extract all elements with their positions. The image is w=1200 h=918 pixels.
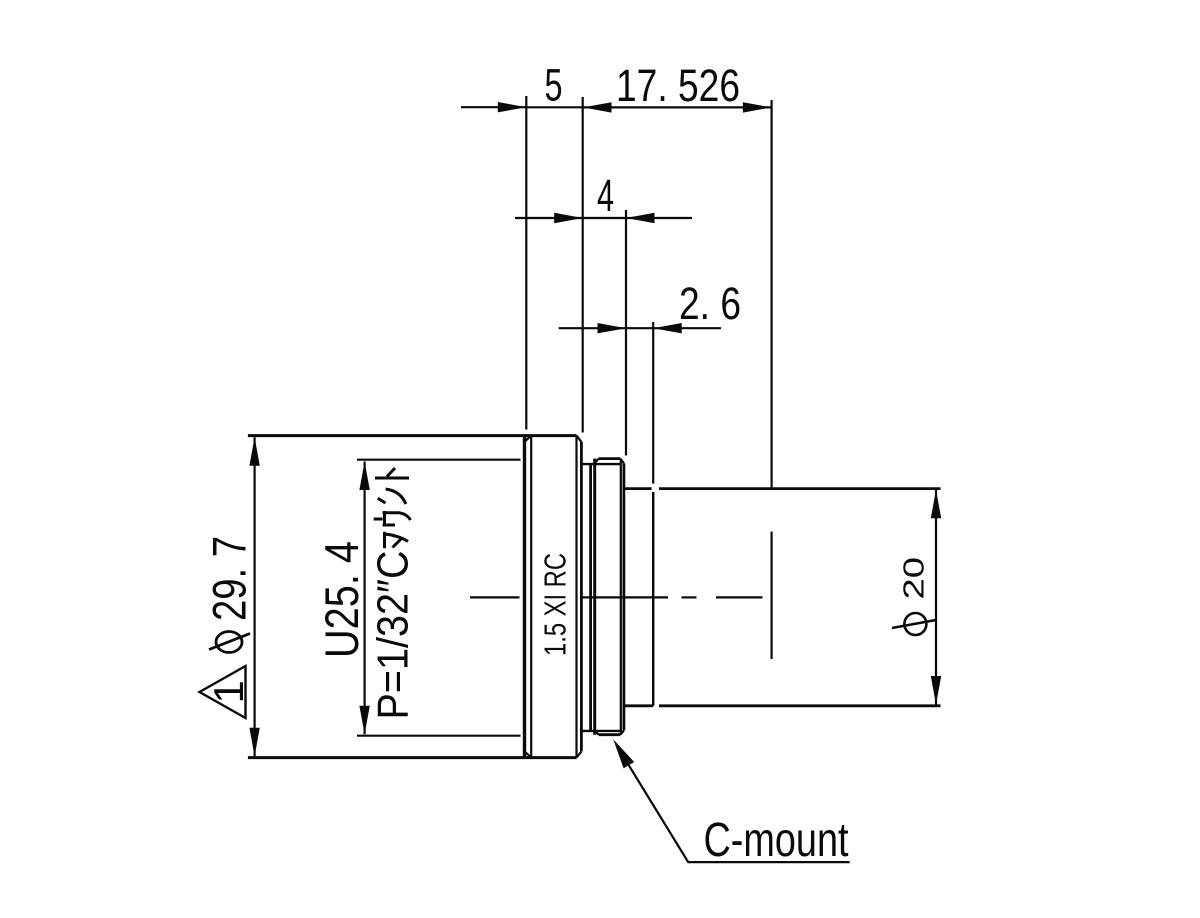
label: diameter symbol for 20 — [892, 613, 936, 635]
wire: C-mount ring bottom edge — [599, 733, 621, 736]
wire: extension line step right — [652, 322, 654, 484]
wire: dimension phi20 line — [935, 490, 937, 705]
label: diameter symbol for 29.7 — [209, 632, 250, 653]
svg-text:2. 6: 2. 6 — [679, 278, 741, 329]
wire: dimension 4 middle line — [583, 217, 626, 219]
wire: dimension 4 left arrow line — [515, 217, 583, 219]
wire: lens body bottom edge — [248, 756, 577, 759]
label: flange marking 1.5 XI RC (rotated) — [538, 553, 573, 656]
svg-text:U25. 4: U25. 4 — [315, 541, 368, 658]
wire: step section top edge — [624, 487, 652, 490]
wire: thread relief groove top edge — [581, 463, 620, 465]
wire: dimension 17.526 line — [583, 106, 771, 108]
wire: dimension 2.6 right arrow line — [653, 327, 721, 329]
wire: C-mount ring top edge — [599, 457, 621, 460]
wire: dimension U25.4 line — [364, 462, 366, 735]
wire: dimension 4 right arrow line — [626, 217, 692, 219]
wire: flange left face — [523, 436, 526, 758]
wire: U25.4 extension bottom — [357, 735, 521, 737]
wire: C-mount ring left face — [593, 459, 596, 735]
wire: rear barrel bottom edge — [659, 704, 941, 707]
katakana MA — [385, 532, 409, 549]
svg-text:17. 526: 17. 526 — [616, 60, 740, 111]
label: dimension text 20 (rotated) — [899, 557, 931, 600]
wire: flange top-left chamfer — [525, 436, 532, 442]
wire: flange bottom-right chamfer — [577, 751, 582, 757]
svg-text:P=1/32″C: P=1/32″C — [369, 551, 418, 720]
wire: lens body top edge — [248, 434, 577, 437]
svg-text:4: 4 — [597, 170, 614, 221]
svg-text:1: 1 — [205, 680, 252, 703]
wire: extension line flange left — [525, 96, 527, 430]
svg-text:20: 20 — [899, 557, 931, 600]
node: centerline — [470, 596, 763, 598]
label: datum triangle 1 — [200, 666, 246, 718]
wire: extension line flange right — [582, 97, 584, 433]
label: dimension text 29.7 (rotated) — [203, 536, 256, 621]
wire: C-mount leader line — [629, 765, 850, 862]
svg-text:5: 5 — [545, 60, 563, 111]
wire: thread relief groove bottom edge — [581, 730, 620, 732]
wire: dimension phi29.7 line — [254, 437, 256, 756]
wire: U25.4 extension top — [357, 459, 521, 461]
wire: C-mount ring top-left chamfer — [595, 459, 599, 464]
wire: dimension 2.6 left arrow line — [559, 327, 626, 329]
wire: flange right face — [580, 442, 583, 752]
katakana N — [378, 489, 406, 504]
wire: extension line ring right — [625, 210, 627, 456]
wire: dimension 2.6 middle line — [626, 327, 653, 329]
wire: C-mount ring bottom-right chamfer — [620, 730, 624, 734]
node: C-mount leader arrowhead — [613, 739, 634, 768]
wire: C-mount ring bottom-left chamfer — [595, 730, 599, 734]
node: image plane line — [770, 100, 772, 659]
wire: C-mount ring right chamfer line — [620, 459, 622, 735]
wire: flange left chamfer line — [530, 436, 532, 757]
katakana TO — [375, 468, 409, 478]
wire: dimension 5 middle line — [526, 106, 583, 108]
svg-text:C-mount: C-mount — [704, 814, 849, 867]
wire: step right edge / 2.6 extension lower — [652, 492, 654, 706]
svg-text:1.5 XI RC: 1.5 XI RC — [538, 553, 573, 656]
label: thread note P=1/32 C-mount (rotated) — [369, 551, 418, 720]
wire: dimension 5 left arrow line — [461, 106, 526, 108]
wire: C-mount ring right face — [623, 463, 626, 730]
label: dimension text U25.4 (rotated) — [315, 541, 368, 658]
wire: flange bottom-left chamfer — [525, 751, 532, 757]
wire: rear barrel top edge — [659, 487, 941, 490]
wire: thread runout line — [589, 464, 592, 731]
svg-text:29. 7: 29. 7 — [203, 536, 256, 621]
katakana U — [374, 511, 411, 526]
wire: flange right chamfer line — [575, 436, 577, 758]
wire: C-mount ring top-right chamfer — [620, 459, 624, 464]
wire: flange top-right chamfer — [577, 436, 582, 442]
wire: step section bottom edge — [624, 704, 653, 707]
